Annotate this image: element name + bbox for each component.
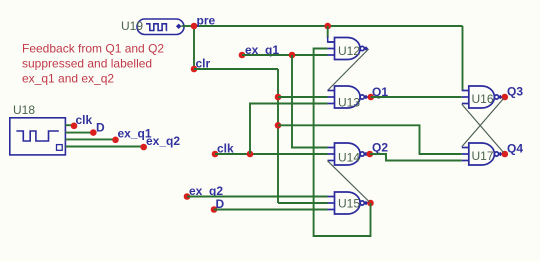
- svg-text:U19: U19: [121, 19, 143, 33]
- wire pre right vertical to U16: [462, 26, 464, 91]
- junction clr/U17: [275, 122, 282, 129]
- U18 pin node ex_q2: [140, 144, 147, 151]
- svg-text:clk: clk: [76, 113, 93, 127]
- NAND gate U15: [328, 192, 365, 214]
- svg-text:ex_q1 and ex_q2: ex_q1 and ex_q2: [22, 72, 114, 86]
- NAND gate U12: [328, 38, 365, 60]
- node Q2: [367, 151, 374, 158]
- NAND gate U16: [462, 86, 499, 108]
- node ex_q2: [184, 193, 191, 200]
- wire clr to U13 middle input: [278, 96, 328, 98]
- junction clr/U13: [275, 94, 282, 101]
- word generator U18: [10, 118, 66, 155]
- wire clr to U17 middle input: [278, 125, 462, 154]
- NAND gate U14: [328, 143, 365, 165]
- NAND gate U17: [462, 143, 499, 165]
- wire Q2 to U17 bottom input: [370, 154, 462, 161]
- U18 pin node ex_q1: [112, 137, 119, 144]
- svg-text:Q2: Q2: [372, 141, 388, 155]
- node clr: [191, 66, 198, 73]
- wire clr horizontal: [194, 68, 278, 70]
- wire D to U15 bottom input: [214, 209, 328, 211]
- U18 pin wire D: [65, 132, 93, 134]
- wire clr to U15 middle input: [278, 202, 328, 204]
- wire Q4 to U16 bottom input (diagonal): [462, 104, 504, 152]
- node D: [211, 206, 218, 213]
- U18 pin wire ex_q2: [65, 146, 143, 148]
- node Q1: [368, 94, 375, 101]
- svg-text:ex_q2: ex_q2: [146, 134, 180, 148]
- svg-text:Q3: Q3: [507, 85, 523, 99]
- U12 top input elbow: [328, 37, 335, 43]
- svg-text:U15: U15: [338, 197, 360, 211]
- svg-text:pre: pre: [197, 14, 216, 28]
- wire pre horizontal: [194, 25, 463, 27]
- junction ex_q1/U14: [289, 52, 296, 59]
- wire ex_q1 to U12 bottom input: [242, 54, 328, 56]
- wire ex_q1 branch to U14 top input: [292, 55, 328, 148]
- U18 pin node D: [90, 129, 97, 136]
- wire pre to clr vertical: [193, 26, 195, 69]
- node ex_q1: [239, 52, 246, 59]
- wire clk branch to U13 bottom input: [250, 104, 328, 155]
- junction clk: [247, 151, 254, 158]
- wire U19 output to pre: [182, 25, 195, 27]
- wire clr vertical trunk: [277, 69, 279, 203]
- svg-text:U13: U13: [338, 95, 360, 109]
- clock source U19: [137, 19, 184, 35]
- node Q4: [502, 151, 509, 158]
- annotation red text: [22, 42, 164, 86]
- NAND gate U13: [328, 86, 365, 108]
- svg-text:Q4: Q4: [507, 142, 523, 156]
- wire U15 output feedback loop to U12 middle input: [314, 49, 371, 237]
- svg-text:U14: U14: [338, 151, 360, 165]
- wire Q3 to U17 top input (diagonal): [462, 99, 504, 147]
- U18 pin wire clk: [65, 124, 73, 126]
- node pre: [191, 23, 198, 30]
- wire U12 output to U13 top input (diagonal): [328, 49, 369, 91]
- svg-text:U12: U12: [338, 44, 360, 58]
- svg-text:suppressed and labelled: suppressed and labelled: [22, 57, 152, 71]
- svg-text:U18: U18: [13, 103, 35, 117]
- wire U15 output to U14 bottom input (diagonal): [328, 161, 370, 202]
- U18 pin wire ex_q1: [65, 138, 115, 140]
- wire clk to U14 middle input: [215, 153, 328, 155]
- wire Q1 to U16 middle input: [371, 96, 462, 98]
- node U15 output: [367, 200, 374, 207]
- junction pre/U12: [324, 23, 331, 30]
- svg-text:Feedback from Q1 and Q2: Feedback from Q1 and Q2: [22, 42, 164, 56]
- svg-text:U16: U16: [472, 92, 494, 106]
- wire ex_q2 to U15 top input: [187, 196, 328, 198]
- wire junction down to U12 top input: [327, 26, 329, 38]
- svg-text:U17: U17: [472, 149, 494, 163]
- node clk: [212, 151, 219, 158]
- U18 pin node clk: [71, 123, 78, 130]
- svg-text:D: D: [96, 121, 105, 135]
- U19 output pin diamond: [176, 24, 182, 29]
- node Q3: [502, 94, 509, 101]
